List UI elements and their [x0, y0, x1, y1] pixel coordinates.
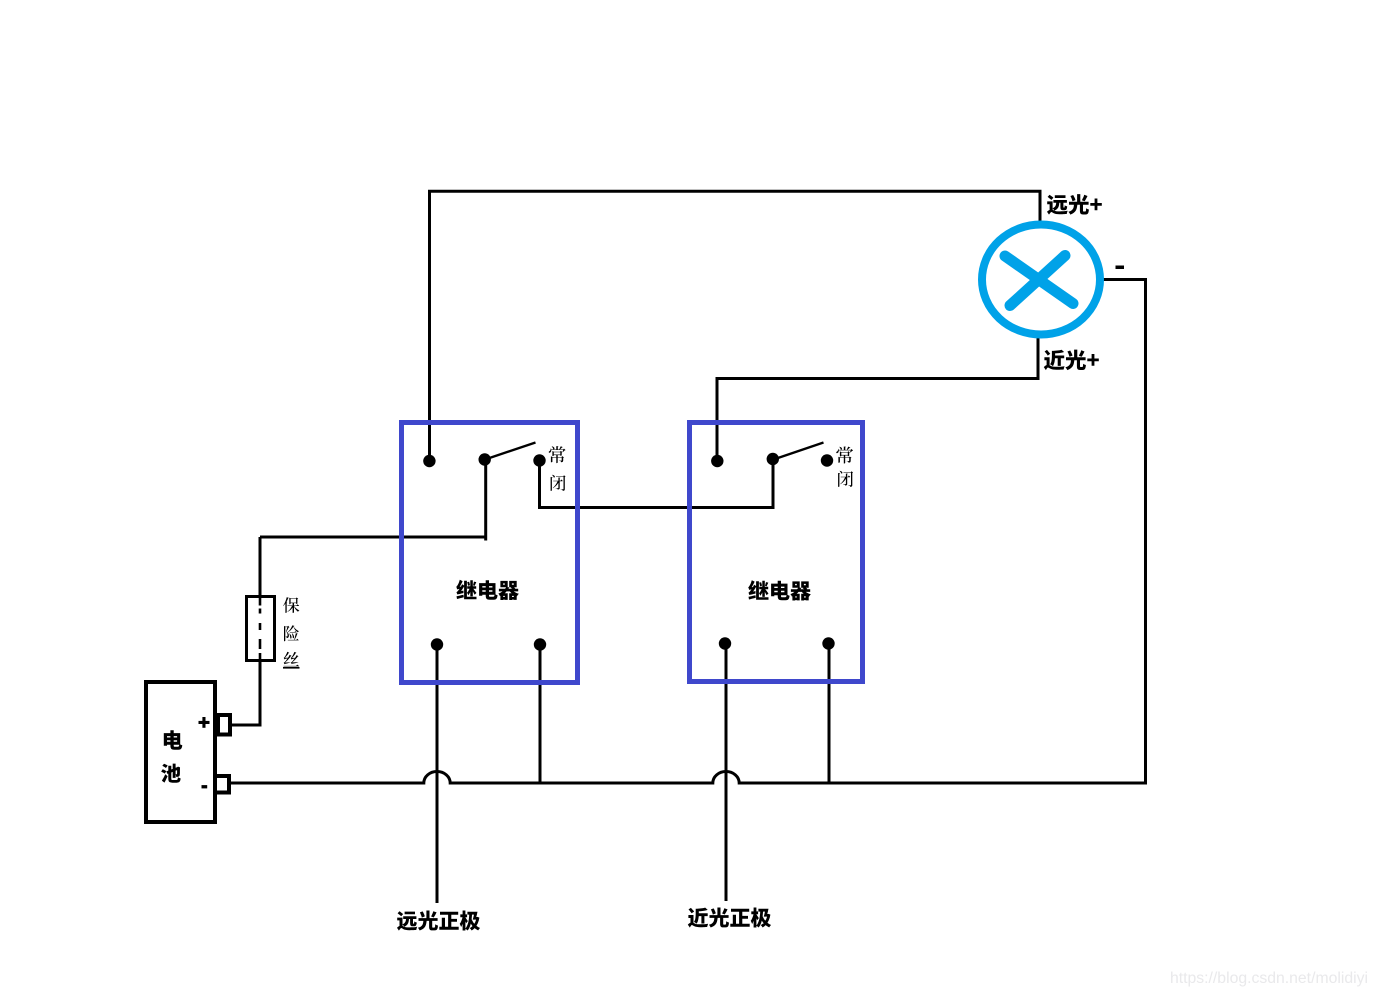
- svg-text:https://blog.csdn.net/molidiyi: https://blog.csdn.net/molidiyi: [1170, 970, 1368, 987]
